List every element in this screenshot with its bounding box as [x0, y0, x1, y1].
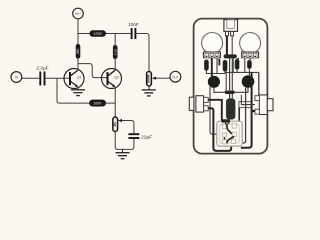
wire center column down to big cap	[229, 58, 231, 98]
footswitch lugs	[222, 124, 236, 144]
wire IN to C1	[22, 77, 39, 79]
film cap (light box) right	[239, 102, 252, 108]
ground below trimmer/C3	[116, 149, 130, 158]
footswitch solder tab (black)	[222, 119, 231, 122]
wire left can to mid resistor	[214, 88, 225, 93]
svg-text:OUT: OUT	[172, 75, 179, 79]
wire rail to 9V	[77, 19, 79, 34]
enclosure	[194, 19, 268, 154]
node IN	[11, 72, 22, 83]
ground below pot	[142, 86, 156, 96]
svg-text:9V+: 9V+	[75, 12, 81, 16]
wire rail tee down to R2	[114, 34, 116, 46]
svg-text:2.2µF: 2.2µF	[36, 66, 48, 71]
wire right jack top lug	[241, 95, 255, 105]
transistor can Q2	[242, 75, 255, 88]
left cluster wires	[206, 71, 225, 74]
svg-text:470R: 470R	[94, 32, 103, 36]
node 9V+	[73, 8, 84, 19]
dark stub component	[218, 59, 220, 66]
svg-text:Q2: Q2	[114, 76, 119, 80]
resistor R3 100K (feedback)	[89, 100, 105, 106]
resistor R4 470R (rail)	[89, 30, 106, 36]
footswitch jumper wires (S curves)	[227, 124, 232, 135]
resistor bar between pots	[224, 54, 237, 58]
wire right thin down to footswitch lug	[236, 88, 246, 144]
resistor pill P3	[235, 59, 239, 70]
ground at Q1 emitter	[71, 87, 85, 96]
transistor Q2	[102, 69, 122, 89]
svg-text:IN: IN	[15, 76, 19, 80]
wire Q1 collector up	[77, 59, 79, 71]
svg-text:500K: 500K	[147, 74, 151, 83]
wire C1 to Q1 base	[46, 77, 70, 79]
resistor R2 8.2K (Q2 collector)	[113, 45, 118, 59]
trimmer VR2 1K (Q2 emitter)	[113, 117, 118, 132]
pot 1 (fuzz)	[202, 33, 223, 59]
svg-text:10nF: 10nF	[128, 22, 139, 27]
capacitor C1 2.2uF	[36, 66, 48, 86]
capacitor C2 10nF	[128, 22, 139, 39]
svg-text:100K: 100K	[94, 102, 103, 106]
wire Q2 emitter down	[114, 87, 116, 117]
capacitor C3 22uF	[128, 134, 152, 139]
wire feedback from node (57,78) down and right	[57, 78, 89, 103]
wire R3 to Q2 emitter line	[106, 102, 116, 104]
mid resistor pill	[225, 91, 235, 94]
resistor pill P1	[204, 60, 208, 71]
stub to right jack bottom lug	[252, 110, 255, 112]
wire rail segment	[78, 33, 89, 35]
wire DC jack left leg down	[226, 36, 228, 55]
DC jack	[224, 20, 238, 36]
wire left jack bottom lug to footswitch via thick loop	[208, 108, 231, 151]
potentiometer VR1 500K	[147, 72, 152, 87]
svg-text:1K: 1K	[113, 122, 117, 127]
trimmer wiper arrow and wire to C3	[121, 121, 134, 134]
wire C2 to pot	[136, 34, 149, 72]
svg-text:Q1: Q1	[77, 76, 82, 80]
transistor Q1	[64, 69, 84, 89]
big electrolytic cap	[226, 99, 235, 120]
node OUT	[170, 71, 181, 82]
resistor pill P2	[223, 60, 228, 72]
wire Q1 collector to Q2 base (S bend)	[78, 64, 108, 78]
wire left can area down left	[210, 87, 221, 134]
left jack	[189, 96, 208, 112]
wire R2 to Q2 collector	[114, 59, 116, 70]
wire right can down	[235, 88, 248, 93]
resistor pill P4	[247, 60, 251, 69]
right cluster wires	[236, 70, 238, 73]
wire C3 bottom to bottom rail	[115, 132, 134, 150]
wire R1 to rail	[77, 34, 79, 44]
resistor R1 33K (Q1 collector)	[76, 44, 81, 59]
wire right vertical thick to footswitch	[241, 72, 252, 147]
transistor can Q1	[208, 76, 220, 88]
pot wiper arrow from OUT	[155, 77, 170, 79]
wire rail to C2	[106, 33, 131, 35]
footswitch body	[217, 121, 242, 146]
svg-text:33K: 33K	[76, 48, 80, 55]
wire left jack top lug to board/footswitch	[208, 100, 229, 122]
right jack	[255, 95, 273, 115]
wire DC jack right leg down	[231, 36, 233, 55]
pot 2 (volume)	[240, 33, 261, 59]
wire film cap lead down to footswitch	[236, 108, 239, 126]
svg-text:22µF: 22µF	[141, 134, 152, 139]
svg-text:8.2K: 8.2K	[113, 49, 117, 55]
